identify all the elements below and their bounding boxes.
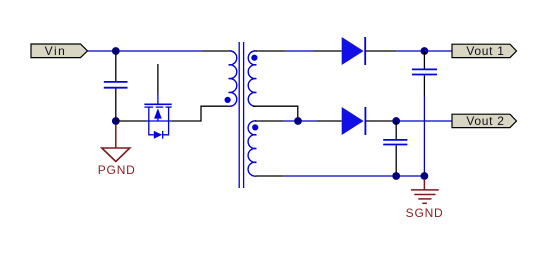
port Vout 2 <box>452 114 517 128</box>
diode D1 <box>342 37 366 65</box>
node center tap <box>294 117 302 125</box>
transformer T1 <box>225 42 259 188</box>
primary winding <box>229 51 237 106</box>
wire Vin to input node <box>88 50 117 52</box>
node input <box>112 47 120 55</box>
secondary winding 2 <box>248 121 256 176</box>
node rail C3 <box>392 172 400 180</box>
body diode loop <box>149 121 154 135</box>
node Vout1 <box>421 47 429 55</box>
svg-text:Vout 2: Vout 2 <box>466 114 504 128</box>
substrate arrow <box>154 108 162 118</box>
gate lead <box>157 64 159 93</box>
wire node to port Vout1 <box>424 50 452 52</box>
secondary winding 1 <box>248 51 256 106</box>
primary polarity dot <box>225 97 231 103</box>
gate bar <box>144 103 171 105</box>
secondary 2 polarity dot <box>252 124 258 130</box>
capacitor C1 <box>104 51 128 121</box>
wire D1 cathode to Vout1 node <box>366 50 424 52</box>
wire secondary2 top lead <box>255 120 283 122</box>
transformer T1 primary top lead <box>203 50 229 52</box>
wire C2 down to SGND node <box>423 96 425 177</box>
wire drain jog to primary bottom <box>172 106 229 121</box>
wire node to MOSFET source <box>116 120 146 122</box>
svg-text:Vout 1: Vout 1 <box>466 44 504 58</box>
node PGND junction <box>112 117 120 125</box>
wire secondary2 bottom lead <box>256 175 283 177</box>
rail through legs <box>146 120 172 122</box>
wire D2 anode lead <box>317 120 342 122</box>
ground PGND <box>98 125 136 178</box>
node Vout2 <box>392 117 400 125</box>
capacitor C3 <box>383 121 407 176</box>
port Vout 1 <box>452 44 517 58</box>
wire secondary1 bottom jog to center-tap node <box>253 106 298 121</box>
transistor Q1 (MOSFET with body diode) <box>144 64 172 139</box>
capacitor C2 <box>412 51 437 96</box>
wire node to port Vout2 <box>396 120 452 122</box>
svg-text:SGND: SGND <box>406 206 444 220</box>
wire center tap to D2 <box>283 120 317 122</box>
channel segments <box>144 106 153 108</box>
core <box>238 42 240 188</box>
wire D2 cathode to Vout2 node <box>366 120 396 122</box>
secondary 1 polarity dot <box>251 55 257 61</box>
legs <box>148 107 150 121</box>
diode D2 <box>342 107 366 135</box>
wire bottom rail <box>283 175 424 177</box>
node SGND <box>421 172 429 180</box>
wire secondary1 top to diode D1 <box>256 50 342 52</box>
ground SGND <box>406 179 444 220</box>
svg-text:Vin: Vin <box>45 44 67 58</box>
svg-text:PGND: PGND <box>98 163 136 177</box>
wire input node to transformer primary <box>116 50 203 52</box>
port Vin <box>31 44 88 58</box>
